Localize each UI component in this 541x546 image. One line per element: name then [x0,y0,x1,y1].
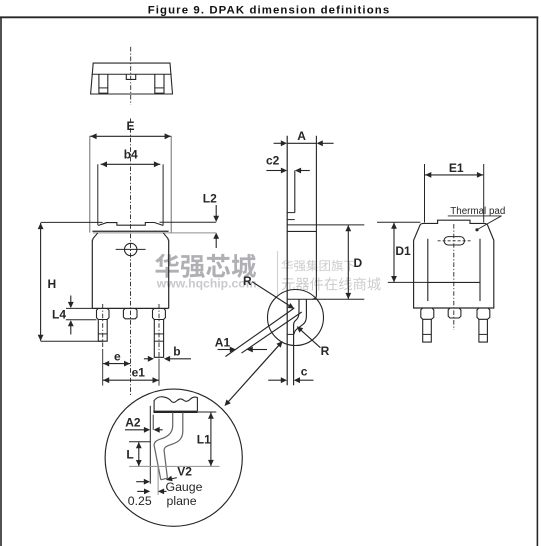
svg-text:e1: e1 [132,366,146,380]
label D [354,256,363,270]
side view back plane line [286,136,288,385]
V2 leader arrow [166,476,177,482]
detail body block bottom thick line [153,411,197,413]
detail lead back curve [154,413,173,480]
side view tab front line [294,171,296,213]
side view lead front S-curve [294,299,306,334]
back view left lead [423,319,432,342]
side view tab step lower [287,219,295,221]
watermark hqchip logo text [155,254,256,278]
label A1 [215,336,231,350]
front view ejector mark cross line [116,248,146,250]
dimension A2 arrows [125,427,163,433]
svg-text:Gauge: Gauge [166,480,203,494]
top view centerline [130,47,132,105]
svg-text:c2: c2 [266,153,280,167]
figure border left [0,17,2,546]
dimension e line [103,361,131,367]
top view right pin divider [155,87,164,89]
watermark tagline 1 [282,260,356,272]
dimension L line [136,442,142,466]
top view left pin block [99,74,108,93]
thermal pad leader line [475,216,501,232]
svg-text:L4: L4 [52,307,66,321]
dimension E1 line [425,172,483,178]
label E [127,119,135,133]
label c2 [266,153,280,167]
front view body right corner slant [163,233,168,240]
label b [173,344,180,358]
svg-text:A: A [297,129,306,143]
detail lead front curve [164,413,183,479]
front view left lead extension line [102,349,104,386]
back view center lead stub [448,308,461,318]
dimension H line [38,223,44,341]
svg-text:H: H [48,277,57,291]
front view H top extension line [41,221,103,223]
front view right lead plating band upper [154,333,163,335]
svg-text:D: D [354,256,363,270]
front view center lead stub [123,308,137,318]
svg-text:0.25: 0.25 [128,494,152,508]
label A2 [125,415,141,429]
label E1 [449,161,464,175]
back view centerline [453,224,455,330]
back view pad right inner line [479,239,481,301]
dimension L4 arrows [68,296,74,335]
back view dimple oval [444,237,465,245]
detail circle [105,389,242,526]
gauge plane arrow [158,489,167,495]
R upper leader arrow [252,282,294,309]
top view center pin notch [126,74,135,79]
front view tab left edge [89,136,91,233]
detail magnifier double arrow [225,341,283,406]
front view body left edge [91,240,93,309]
front view body step line gray / L2 lower reference [93,232,216,234]
dimension D1 line [391,223,397,283]
svg-text:b: b [173,344,180,358]
back view D1 top extension [377,221,420,223]
watermark tagline 2 [282,277,381,290]
label plane [167,494,197,508]
back view left lead band [423,333,432,335]
back view left lead shoulder [421,308,434,319]
front view L4 bottom extension [66,319,97,321]
front view right lead centerline [158,304,160,359]
0.25 lower arrow [137,489,150,495]
side view lead foot step [287,333,293,335]
front view left lead centerline [102,304,104,349]
detail body block with jagged break top [154,397,197,412]
svg-text:L2: L2 [203,191,217,205]
side view front edge [313,136,317,299]
dimension c2 arrows [266,168,309,174]
front view right lead extension line [158,359,160,386]
detail back plane line [149,406,151,484]
svg-text:Figure 9. DPAK dimension defin: Figure 9. DPAK dimension definitions [148,5,391,17]
label L1 [197,432,211,446]
back view E1 left extension [424,164,426,223]
svg-text:www.hqchip.com: www.hqchip.com [156,277,257,291]
back view right lead shoulder [477,308,490,319]
front view b4 right extension [162,164,164,225]
svg-text:E1: E1 [449,161,464,175]
label b4 [124,147,138,161]
label c [301,365,308,379]
front view right lead [154,320,163,358]
thermal pad underline [448,215,502,217]
label e1 [132,366,146,380]
svg-text:V2: V2 [177,465,192,479]
back view D1 bottom extension [388,281,428,283]
svg-text:c: c [301,365,308,379]
detail L1 top reference extension [197,411,216,413]
side view body bottom / D bottom reference [287,298,364,300]
side view body top / D top reference [287,224,364,226]
detail gauge plane line [129,465,219,467]
dimension A arrows [274,140,334,146]
detail lead foot bottom edge [161,478,168,480]
top view left pin divider [99,87,108,89]
side view tab step upper [287,212,295,214]
front view tab right edge [170,136,172,233]
svg-text:R: R [321,344,330,358]
dimension E line [90,133,171,139]
dimension A1 arrows [218,347,267,353]
back view right lead [479,319,488,342]
dimension D line [345,225,351,299]
A1 reference diagonal front [242,312,302,353]
front view body step line black [92,230,168,232]
front view body bottom edge [92,307,168,309]
svg-text:L: L [126,447,133,461]
back view pad bottom line / D1 reference [428,281,480,283]
R lower leader arrow [297,326,321,347]
front view L4 top extension [66,307,92,309]
front view H bottom extension line [41,340,104,342]
label R upper [243,274,252,288]
dimension L1 line [208,412,214,466]
svg-text:A1: A1 [215,336,231,350]
detail gauge vertical line [157,466,159,495]
front view right lead plating band lower [154,340,163,342]
dimension L2 arrows [213,205,219,248]
0.25 upper arrow [136,479,150,485]
front view right lead shoulder [153,308,166,319]
front view ejector mark circle [125,243,137,255]
front view left lead shoulder [97,308,110,319]
front view b4 left extension [97,164,99,225]
svg-text:D1: D1 [395,244,411,258]
dimension c arrows [268,377,313,383]
top view tab top edge line [92,73,172,75]
back view right lead band [479,333,488,335]
top view right pin block [155,74,164,93]
figure border top [0,16,538,18]
dimension b4 line [101,161,161,167]
figure title [148,5,391,17]
figure border right [536,17,538,546]
front view body left corner slant [93,233,98,240]
svg-text:e: e [114,349,121,363]
svg-text:plane: plane [167,494,197,508]
dimension e1 line [103,377,159,383]
label 0.25 [128,494,152,508]
front view vertical centerline [130,119,132,397]
svg-text:L1: L1 [197,432,211,446]
svg-text:E: E [127,119,135,133]
label Gauge [166,480,203,494]
svg-text:Thermal pad: Thermal pad [450,206,505,217]
detail lead back tangent line [152,415,154,430]
label L4 [52,307,66,321]
label D1 [395,244,411,258]
front view L2 upper reference extension [160,221,217,223]
label R lower [321,344,330,358]
label V2 [177,465,192,479]
top view body trapezoid [91,63,173,94]
svg-text:R: R [243,274,252,288]
back view dimple dashed line [438,240,471,242]
label Thermal pad [450,206,505,217]
label L2 [203,191,217,205]
label H [48,277,57,291]
svg-text:b4: b4 [124,147,138,161]
front view body top notch profile [98,223,163,226]
A1 reference diagonal rear [226,308,295,357]
front view left lead [98,320,107,342]
detail L top reference line [129,441,150,443]
label e [114,349,121,363]
watermark website url [156,277,257,291]
back view pad left inner line [427,239,429,301]
label A [297,129,306,143]
label L [126,447,133,461]
side view body band line [287,230,316,232]
svg-text:A2: A2 [125,415,141,429]
back view body outline [414,220,494,308]
side view lead back S-curve [294,299,299,385]
front view body right edge [168,240,170,309]
dimension b arrows [144,356,191,362]
watermark divider [277,251,279,295]
back view E1 right extension [483,164,485,223]
side view magnifier circle small [268,290,324,346]
front view left lead plating band [98,333,107,335]
